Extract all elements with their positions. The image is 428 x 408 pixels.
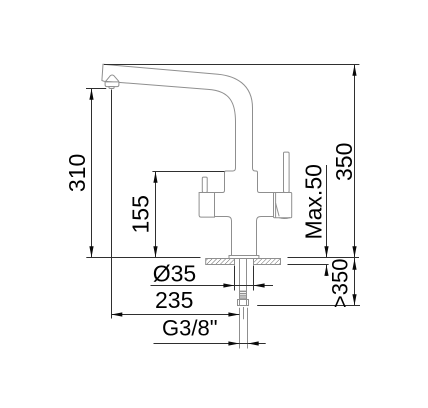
svg-text:310: 310 [64,154,90,192]
svg-text:235: 235 [155,287,193,313]
svg-text:G3/8": G3/8" [162,316,218,341]
svg-text:350: 350 [331,143,357,181]
svg-text:>350: >350 [328,259,353,309]
svg-text:155: 155 [128,195,154,233]
svg-text:Ø35: Ø35 [153,261,196,287]
svg-text:Max.50: Max.50 [301,164,327,239]
